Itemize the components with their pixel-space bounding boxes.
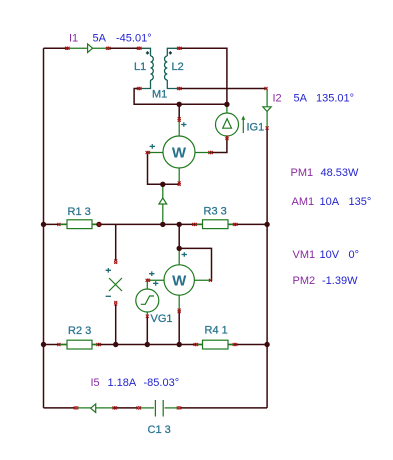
label R3 (204, 206, 227, 218)
svg-text:C1 3: C1 3 (148, 424, 171, 436)
svg-text:1.18A: 1.18A (108, 377, 137, 389)
pin I1 right (106, 47, 110, 50)
polarity plus PM2 top (182, 252, 187, 257)
svg-text:-1.39W: -1.39W (322, 275, 358, 287)
op wattmeter PM1 (148, 120, 211, 185)
label M1 (152, 89, 167, 101)
svg-text:M1: M1 (152, 89, 167, 101)
svg-text:5A: 5A (93, 33, 107, 45)
pin PM1 left (146, 151, 150, 154)
pin PM1 top (178, 117, 181, 121)
wire PM1 top feed (178, 104, 180, 119)
svg-text:5A: 5A (294, 93, 308, 105)
svg-text:PM2: PM2 (293, 275, 316, 287)
svg-text:VG1: VG1 (151, 313, 173, 325)
pin PM2 left (146, 279, 150, 282)
polarity plus PM1 left (150, 144, 155, 149)
svg-text:AM1: AM1 (292, 196, 315, 208)
inductor L1 (139, 48, 153, 88)
svg-text:135°: 135° (349, 196, 372, 208)
pin I5 left (74, 406, 78, 409)
junction left rail lower node (41, 342, 46, 347)
current arrow I2 (263, 89, 271, 129)
wire bottom mid (113, 407, 139, 409)
ammeter arrow AM1 (159, 184, 167, 224)
junction right rail lower node (264, 342, 269, 347)
pin R2 left (57, 343, 60, 346)
svg-text:R1 3: R1 3 (68, 206, 91, 218)
svg-text:R3 3: R3 3 (204, 206, 227, 218)
polarity dot L1 (146, 51, 149, 54)
voltmeter VM1 (109, 278, 122, 291)
wire top left segment (44, 47, 68, 49)
junction VG1 bottom node (145, 342, 150, 347)
label AM1 value (292, 196, 372, 208)
polarity plus VM1 (106, 268, 111, 273)
capacitor C1 (140, 400, 178, 417)
label PM1 value (291, 167, 360, 179)
resistor R2 (60, 340, 98, 349)
label I5 value (91, 377, 180, 389)
pin R1 left (57, 223, 60, 226)
pin PM1 bottom (178, 182, 181, 186)
wire PM2 right loop (179, 248, 211, 280)
junction IG1 feed node (224, 102, 229, 107)
pin R4 right (233, 343, 237, 346)
svg-text:VM1: VM1 (293, 249, 316, 261)
svg-text:-85.03°: -85.03° (144, 377, 180, 389)
wire mid bus (44, 223, 268, 225)
pin PM1 right (208, 151, 212, 154)
arrow IG1 direction (241, 116, 245, 133)
op wattmeter PM2 (148, 248, 211, 311)
pin C1 right (177, 406, 181, 409)
junction right rail mid node (264, 222, 269, 227)
pin I5 right (113, 406, 117, 409)
pin I2 top (265, 87, 268, 90)
label R1 (68, 206, 91, 218)
polarity plus PM1 top (181, 122, 186, 127)
pin L1 top (137, 47, 141, 50)
pin PM2 bottom (178, 309, 181, 313)
wire lower bus (44, 344, 268, 346)
polarity dot L2 (169, 51, 172, 54)
pin VM1 top (114, 260, 117, 264)
label R2 (68, 325, 91, 337)
wire bottom left (44, 407, 75, 409)
svg-text:L1: L1 (134, 61, 146, 73)
pin R2 right (97, 343, 101, 346)
pin R1 right (98, 223, 101, 226)
svg-text:IG1: IG1 (247, 122, 265, 134)
svg-text:R4 1: R4 1 (205, 325, 228, 337)
label I2 value (273, 93, 355, 105)
current arrow I1 (68, 44, 109, 53)
junction PM2 bottom node (177, 342, 182, 347)
inductor L2 (165, 48, 180, 88)
wire PM2 top feed (178, 224, 180, 248)
pin I1 left (65, 47, 69, 50)
svg-text:L2: L2 (172, 61, 184, 73)
pin I2 bottom (266, 126, 269, 129)
svg-text:48.53W: 48.53W (321, 167, 360, 179)
wire PM1 left loop (148, 153, 180, 185)
pin IG1 bottom (225, 136, 228, 140)
svg-text:I1: I1 (69, 33, 78, 45)
source IG1 (216, 104, 239, 139)
wire PM1 right to IG1 (211, 139, 227, 153)
svg-text:10V: 10V (320, 249, 340, 261)
label L2 (172, 61, 184, 73)
wire VM1 top (115, 224, 117, 261)
wire L2 top to right drop (180, 48, 227, 104)
svg-text:I5: I5 (91, 377, 100, 389)
label VG1 (151, 313, 173, 325)
svg-text:0°: 0° (349, 249, 360, 261)
label R4 (205, 325, 228, 337)
label L1 (134, 61, 146, 73)
wire right rail (266, 128, 268, 408)
junction VM1 bottom node (113, 342, 118, 347)
svg-text:I2: I2 (273, 93, 282, 105)
current arrow I5 (78, 404, 113, 413)
wire top mid segment (109, 47, 140, 49)
wire VG1 bottom (146, 316, 148, 345)
wire PM2 bottom (178, 311, 180, 345)
pin VM1 bottom (114, 301, 117, 305)
junction AM1 top node (160, 182, 165, 187)
pin R3 left (192, 223, 196, 226)
label IG1 (247, 122, 265, 134)
resistor R4 (196, 340, 235, 349)
polarity plus PM2 left (149, 271, 154, 276)
pin PM2 right (209, 279, 212, 282)
label PM2 value (293, 275, 359, 287)
label C1 (148, 424, 171, 436)
pin L2 bottom (177, 87, 181, 90)
source VG1 (136, 280, 159, 316)
label VM1 value (293, 249, 360, 261)
polarity minus VM1 (106, 295, 111, 297)
svg-text:W: W (172, 145, 187, 162)
polarity plus VG1 (153, 281, 158, 286)
wire VM1 bottom (115, 304, 117, 345)
svg-text:135.01°: 135.01° (316, 93, 354, 105)
wire L2 bottom to right rail (180, 88, 268, 90)
pin C1 left (137, 406, 141, 409)
pin R4 left (194, 343, 198, 346)
junction PM2 feed node (177, 222, 182, 227)
svg-text:R2 3: R2 3 (68, 325, 91, 337)
resistor R1 (60, 220, 98, 229)
junction left rail mid node (41, 222, 46, 227)
label I1 value (69, 33, 152, 45)
pin L1 bottom (137, 87, 141, 90)
svg-text:W: W (172, 273, 187, 290)
resistor R3 (196, 220, 235, 229)
wire bottom right (180, 407, 267, 409)
junction AM1 bottom node (160, 222, 165, 227)
svg-text:-45.01°: -45.01° (116, 33, 152, 45)
pin L2 top (177, 47, 181, 50)
junction PM1 feed node (177, 102, 182, 107)
svg-text:PM1: PM1 (291, 167, 314, 179)
wire L1 bottom to mid bus (134, 89, 227, 105)
pin R3 right (233, 223, 237, 226)
wire left rail (43, 48, 45, 408)
pin VG1 bottom (146, 315, 149, 318)
junction R1 right node (96, 222, 101, 227)
svg-text:10A: 10A (320, 196, 340, 208)
junction PM2 top node (177, 246, 182, 251)
